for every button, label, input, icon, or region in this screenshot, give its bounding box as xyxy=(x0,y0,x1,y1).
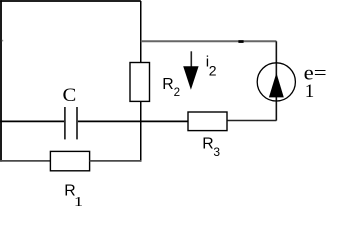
label C xyxy=(63,85,77,106)
wire left vertical rail xyxy=(0,0,2,161)
junction tick on y=41 wire xyxy=(238,40,243,43)
resistor R1 xyxy=(50,151,89,170)
wire y=120.5 right (R3 to right vertical) xyxy=(228,120,277,122)
wire horizontal y=41 (node to current source) xyxy=(141,40,277,42)
current arrow i2 xyxy=(183,51,198,90)
wire y=121 middle (capacitor to R3) xyxy=(78,120,188,122)
svg-text:1: 1 xyxy=(74,195,83,207)
svg-text:3: 3 xyxy=(213,145,220,159)
wire y=121 left (left rail to capacitor) xyxy=(0,120,64,122)
svg-text:2: 2 xyxy=(174,86,180,99)
label R1 xyxy=(64,183,83,210)
wire middle vertical upper (top wire to R2) xyxy=(140,1,142,63)
current source e=1 xyxy=(257,63,295,101)
label R3 xyxy=(202,135,220,159)
svg-text:C: C xyxy=(63,85,77,106)
label i2 xyxy=(206,53,217,78)
wire right vertical (top wire through source to bottom wire) xyxy=(275,41,277,120)
label e=1 xyxy=(304,63,327,102)
wire y=161 left (left rail to R1) xyxy=(0,160,50,162)
svg-text:2: 2 xyxy=(209,63,217,79)
svg-text:R: R xyxy=(162,76,173,93)
wire y=161 right (R1 to middle vertical) xyxy=(90,160,142,162)
resistor R3 xyxy=(188,112,227,131)
wire middle vertical lower (R2 to bottom wire) xyxy=(140,101,142,161)
wire top horizontal xyxy=(0,0,141,2)
node nub on left rail xyxy=(2,40,3,42)
resistor R2 xyxy=(130,63,150,102)
svg-text:1: 1 xyxy=(305,81,315,102)
capacitor C xyxy=(65,107,77,139)
svg-text:R: R xyxy=(202,135,213,152)
label R2 xyxy=(162,76,180,99)
